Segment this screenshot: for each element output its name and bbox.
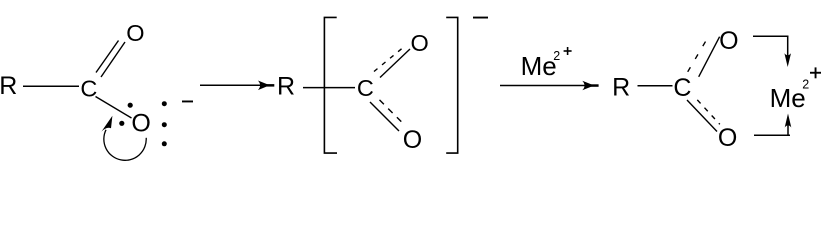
svg-text:R: R	[612, 74, 630, 102]
label superscript plus on metal (vertical bar)	[815, 67, 817, 78]
svg-text:O: O	[719, 27, 738, 55]
wire coordination line O6 vertical up	[787, 122, 789, 136]
reaction arrow 2 head	[582, 81, 594, 91]
svg-text:O: O	[131, 110, 150, 138]
curved arrow head	[102, 116, 113, 132]
svg-text:Me: Me	[521, 51, 557, 81]
wire partial double bond C3-O5 solid	[699, 37, 720, 77]
right bracket	[446, 17, 458, 153]
wire partial double bond C2-O3 dashed	[374, 48, 403, 72]
wire coordination line O5 horizontal	[753, 35, 788, 37]
curved electron-pushing arrow arc	[104, 130, 146, 161]
svg-text:R: R	[0, 72, 17, 100]
svg-text:2: 2	[553, 49, 560, 63]
reaction arrow 2 shaft	[500, 85, 597, 87]
svg-text:C: C	[673, 74, 691, 102]
left bracket	[324, 17, 337, 153]
svg-text:O: O	[126, 20, 144, 46]
svg-text:O: O	[411, 30, 429, 56]
lone pair dot d on O2	[162, 122, 167, 127]
negative charge on O2	[182, 101, 193, 103]
wire bond C1-O2 single	[96, 97, 132, 119]
reaction arrow 1 shaft	[200, 84, 273, 86]
coordination arrow head up to Me	[785, 114, 792, 128]
lone pair dot e on O2	[162, 141, 167, 146]
svg-text:Me: Me	[770, 83, 806, 113]
wire partial double bond C3-O6 dashed	[697, 100, 720, 124]
lone pair dot b on O2	[119, 121, 124, 126]
wire bond R3-C3	[638, 85, 673, 87]
reaction arrow 1 tip stub	[267, 84, 275, 87]
label superscript plus on metal (horizontal bar)	[810, 72, 821, 74]
negative charge superscript of bracket	[473, 17, 488, 19]
svg-text:C: C	[80, 76, 97, 102]
wire bond R2-C2	[303, 87, 355, 89]
svg-text:R: R	[277, 73, 295, 101]
lone pair dot c on O2	[162, 101, 167, 106]
coordination arrow head down to Me	[784, 53, 791, 67]
wire double bond C1=O1 line left	[96, 41, 119, 73]
label superscript plus above arrow 2 (vertical bar)	[567, 47, 569, 55]
svg-text:O: O	[718, 124, 737, 152]
lone pair dot a on O2	[128, 103, 133, 108]
label superscript plus above arrow 2 (horizontal bar)	[564, 50, 572, 52]
wire partial double bond C2-O4 dashed	[380, 100, 403, 123]
svg-text:2: 2	[802, 77, 809, 91]
wire coordination line O5 vertical down	[787, 36, 789, 61]
wire partial double bond C3-O6 solid	[687, 100, 717, 132]
wire partial double bond C2-O3 solid	[380, 49, 410, 78]
wire partial double bond C3-O5 dashed	[688, 41, 706, 72]
wire coordination line O6 horizontal	[754, 134, 790, 136]
svg-text:C: C	[357, 75, 374, 101]
reaction arrow 2 tip stub	[591, 84, 599, 87]
reaction arrow 1 head	[258, 81, 270, 91]
svg-text:O: O	[403, 126, 422, 154]
wire bond R1-C1	[23, 85, 79, 87]
wire double bond C1=O1 line right	[101, 42, 125, 77]
wire partial double bond C2-O4 solid	[370, 102, 399, 131]
